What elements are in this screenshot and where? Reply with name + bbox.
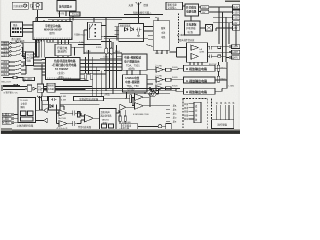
amp triangle Q704 [120, 104, 126, 110]
S端子 connector circles [1, 86, 3, 88]
wire 行输出 to flyback [71, 30, 88, 54]
wire receiver to bus [37, 10, 39, 22]
connector circles [149, 88, 151, 90]
wire CPU left down [35, 40, 37, 58]
power amp box U701 TDA [100, 109, 117, 131]
wires into Q701/Q702 [57, 105, 60, 124]
IR emitter symbol [23, 4, 26, 7]
box 预选键盘 [11, 22, 23, 37]
op-amp A1 [191, 45, 198, 50]
yoke wire down [235, 25, 237, 46]
rail box +12V [233, 15, 241, 19]
bus wire top [36, 17, 150, 19]
wire U701 to Q704 [116, 110, 119, 113]
CRT bus vertical [219, 62, 228, 89]
resistor R532 [132, 98, 134, 106]
bottom scan band [0, 129, 240, 131]
speaker sym SPL [44, 108, 48, 112]
wires U202 to amps [147, 70, 156, 91]
IR beam arcs [30, 4, 33, 8]
diode D301 [33, 87, 36, 90]
terminal 视频4 [1, 69, 9, 72]
box 荧光屏显示 [57, 1, 76, 12]
label leader lines right-center [166, 106, 170, 122]
terminal 视频3 [1, 61, 9, 64]
remote input wires [189, 104, 195, 119]
keyboard box SW801 [212, 120, 234, 129]
tuner box TU101 [119, 24, 144, 42]
box 伴音中放/鉴频 U203 [123, 75, 148, 92]
J401 diode [50, 105, 53, 108]
tuner cap C1 [136, 27, 142, 36]
coupling caps C602 [210, 55, 212, 59]
cap C504 [105, 48, 108, 54]
wire flyback top [93, 18, 95, 23]
resistor R613 [166, 87, 172, 90]
wire smps up feed [190, 16, 192, 21]
resistor R642 [217, 76, 219, 82]
top-right corner mark [225, 0, 240, 2]
resistor R612 [166, 78, 172, 81]
long box 全频道阻抗适配器 [74, 97, 104, 101]
wire IF bottom down [157, 50, 167, 54]
bus wire 2 [48, 19, 122, 21]
wires amp to speakers [208, 47, 230, 58]
amp bottom stubs [190, 62, 202, 65]
op-amp A2 [191, 53, 198, 59]
tuner diode D2 [130, 28, 133, 32]
antenna feed wire [138, 9, 140, 15]
cable input wire [124, 14, 163, 16]
wire U501 to U202 [100, 70, 122, 72]
cap C505 [110, 48, 113, 54]
wire S to box [3, 87, 47, 90]
resistor R641 [217, 65, 219, 71]
cap C701 [67, 111, 77, 116]
pill box 视放输出G V602 [184, 77, 216, 83]
rail box +15V [233, 10, 241, 14]
wires amps to pills [164, 68, 184, 91]
wires under tuner [104, 27, 148, 41]
wire right of box down [74, 47, 76, 55]
wire U302 to U303 [55, 78, 92, 89]
bus wire y42.2 [47, 41, 85, 43]
center horizontals [78, 45, 122, 59]
noise overlay [0, 0, 1, 1]
J401 caps [51, 98, 57, 101]
U501 right pins [80, 60, 122, 74]
box 遥控接收器 U102 [33, 2, 42, 9]
resistor label +B1 [201, 6, 209, 9]
headphone box J401 [49, 97, 61, 111]
AV box outputs [34, 54, 45, 63]
keypad button dots [12, 28, 22, 33]
vertical bus x85 [86, 50, 102, 97]
terminal R-out [2, 121, 11, 124]
wire row aux2 [3, 78, 24, 82]
rail box +9V [233, 21, 241, 25]
wire top section divider [10, 41, 40, 43]
vertical long bus x42 [41, 64, 43, 110]
antenna A2 [37, 96, 42, 103]
wires terminals to decoder [14, 115, 18, 123]
box 中放/视频检波 U202 [122, 54, 147, 70]
output transformer T701 [121, 124, 138, 131]
jumper circles [149, 92, 154, 97]
degauss coil box L901 [206, 25, 213, 32]
wire Q704 to Q705 [126, 106, 135, 108]
amp triangle Q-R [156, 67, 164, 72]
CPU bottom pin stubs [38, 40, 53, 43]
rail droppers vertical [219, 7, 229, 62]
speaker box SP2 [232, 50, 241, 54]
U501 left pins [34, 60, 46, 76]
switch S1 [11, 42, 21, 56]
amp triangle Q-B [156, 86, 164, 91]
wire caps to Q703 [77, 113, 85, 124]
resistor R706 [124, 116, 126, 121]
amp triangle Q701 [59, 110, 67, 116]
rail box +112V [233, 5, 241, 9]
terminal 音频1 [1, 46, 9, 49]
wire Q703 to U701 [94, 117, 100, 119]
resistor R531 [130, 95, 132, 103]
IF left pin stubs [144, 27, 154, 40]
CPU pin stubs [36, 18, 70, 22]
resistor R701 [78, 112, 81, 118]
box 滤波 U305 [42, 96, 48, 101]
terminal V-out [2, 113, 11, 116]
U202 to U203 stubs [127, 70, 140, 74]
wire into triangle A [104, 89, 159, 99]
dashed partition x211 [211, 99, 213, 132]
terminal 音频3 [1, 65, 9, 68]
terminal 音频4 [1, 73, 9, 76]
center verticals [106, 18, 117, 94]
flyback secondary dots [94, 24, 96, 37]
wire flyback corner [101, 42, 111, 49]
pill box 视放输出R V601 [184, 65, 216, 71]
terminal 视频2 [1, 50, 9, 53]
audio section line [42, 104, 100, 106]
IF IC box U201 [153, 21, 169, 50]
box 整机电源输入 [166, 2, 183, 9]
tuner diode D1 [125, 28, 128, 32]
box 开关稳压电源 U901 [185, 4, 199, 16]
AC socket box [166, 124, 172, 130]
speaker box SP1 [232, 45, 241, 49]
行输出 to U501 stubs [58, 56, 68, 58]
wire IF top to bus [157, 18, 159, 21]
receiver symbol [36, 3, 39, 6]
antenna A1 [136, 2, 141, 9]
wire mains to smps [183, 4, 189, 6]
switch S2 [11, 60, 21, 74]
IF diagonal wire [146, 45, 153, 47]
main IC U501 TA7698AP [46, 58, 81, 80]
box 红外发射器 U101 [12, 2, 28, 9]
coupling caps C601 [210, 46, 212, 50]
wire resistors [120, 110, 125, 124]
wire antenna A2 down [40, 103, 44, 111]
wire display pins [60, 11, 74, 20]
box A/V切换 U302 [27, 85, 32, 91]
resistor R511 [84, 73, 86, 79]
J401 out wire [60, 106, 64, 110]
rail box +5V [233, 26, 241, 30]
flyback transformer T444 [88, 22, 102, 39]
box stereo decoder U401 [18, 98, 36, 123]
pill box 视放输出B V603 [184, 88, 216, 94]
small box 接口 [23, 77, 35, 80]
verticals U203 down [145, 92, 150, 107]
wire protect to coil [200, 27, 206, 29]
wires into power amp [170, 48, 187, 58]
resistor R602 [218, 55, 221, 57]
wire Q705 to labels [143, 105, 170, 107]
box 主电源保护电路 [185, 21, 201, 35]
coil symbol [207, 26, 212, 31]
wire transformer chain [138, 125, 166, 127]
decoder inner box 2 [28, 111, 34, 116]
decoder inner box 1 [21, 111, 27, 116]
amp triangle Q706 [135, 94, 144, 101]
wire row aux3 [3, 84, 20, 87]
CRT feed wires [215, 68, 227, 91]
jack box J601 [232, 56, 241, 60]
amp triangle Q-G [156, 77, 164, 82]
bus verticals center-left [37, 40, 45, 58]
resistor R512 [90, 73, 92, 79]
resistor R611 [166, 68, 172, 71]
tuner left pins [115, 27, 119, 35]
resistor R705 [119, 116, 121, 121]
box 视频放大 U303 [47, 83, 55, 92]
flyback primary [89, 24, 93, 39]
box Y/C U304 [37, 84, 43, 92]
decoder inner box 3 [21, 117, 34, 121]
wire flyback right out [101, 26, 106, 37]
long bus lines center [42, 89, 180, 94]
amp triangle Q705 [135, 103, 144, 110]
terminal 音频2 [1, 54, 9, 57]
keyboard wires [216, 105, 233, 120]
wires bus to 行输出 [58, 40, 69, 45]
amp triangle Q703 [85, 115, 94, 123]
dashed partition power [178, 14, 180, 44]
wire antenna to tuner [138, 15, 140, 24]
label bracket T1.4-2.6 [70, 12, 81, 16]
remote box U801 [194, 102, 201, 122]
wire decoder to speakers [36, 110, 44, 120]
box 行输出电路 [55, 44, 71, 55]
cap C702 [67, 121, 77, 126]
U202 left pins [117, 56, 123, 58]
amp triangle Q702 [59, 121, 67, 127]
wires keypad to CPU [23, 25, 34, 32]
AV switch box U301 [26, 52, 34, 66]
speaker sym SPR [44, 118, 48, 122]
resistor R601 [218, 46, 221, 48]
terminal L-out [2, 117, 11, 120]
wires switch to U301 [21, 43, 26, 74]
dashed remote frame [183, 99, 208, 131]
left edge shade [0, 0, 1, 134]
wires smps outputs [199, 7, 201, 12]
jack circle J701 [158, 124, 162, 128]
IC U103 CPU M50436 [33, 22, 72, 40]
resistor label +B2 [201, 10, 209, 13]
rail wires [209, 7, 233, 31]
audio power amp box U601 LA4285 [187, 43, 208, 63]
background paper [0, 0, 240, 134]
terminal 视频1 [1, 42, 9, 45]
